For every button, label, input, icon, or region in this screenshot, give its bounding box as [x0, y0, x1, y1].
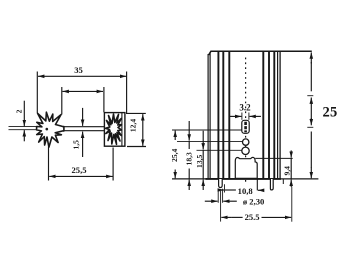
bottom cutout	[235, 157, 257, 178]
pin right (bent tab)	[270, 179, 273, 190]
slot centre dark dash	[244, 122, 247, 132]
cutout top extension line (for 9,4)	[255, 157, 293, 159]
block inner fin star	[106, 114, 122, 144]
fin line	[222, 52, 224, 179]
dimension 10,8 arrow left	[218, 189, 224, 191]
svg-text:12,4: 12,4	[129, 119, 138, 132]
body top edge	[209, 51, 312, 55]
dimension 25 tick upper	[307, 95, 313, 97]
dimension 13,5 line	[202, 150, 204, 179]
body right edge outer	[279, 52, 281, 179]
dimension 25,4 arrow top	[174, 131, 176, 140]
body right edge inner	[277, 52, 279, 179]
dimension 25 tick lower	[307, 126, 313, 128]
dimension 25 line upper	[310, 62, 312, 91]
dimension 12,4 extension bottom	[127, 146, 146, 148]
dimension diameter 2,30 arrow left	[205, 200, 218, 202]
small tick below baseline right of body	[282, 179, 284, 184]
block profile (right element)	[104, 113, 125, 147]
dimension 9,4 arrow top	[290, 150, 292, 157]
fin line	[217, 52, 219, 179]
dimension 35 extension line right	[126, 72, 128, 114]
dimension 1,5 arrow bottom	[82, 132, 84, 157]
dimension 25.5 bottom extension right	[291, 187, 293, 222]
dimension 10,8 arrow right	[258, 189, 264, 191]
dimension 2 arrow bottom	[23, 130, 25, 141]
centre dashed line	[245, 58, 247, 183]
svg-text:13,5: 13,5	[195, 154, 204, 167]
hole lower leader line	[197, 149, 242, 151]
dimension 9,4 line	[290, 158, 292, 179]
inner gap dimension line	[63, 90, 83, 92]
dimension 35 extension line left	[36, 72, 38, 114]
dimension 25.5 bottom extension left	[220, 191, 222, 222]
fin line	[273, 52, 275, 179]
svg-text:25.5: 25.5	[245, 212, 260, 222]
body bottom edge	[206, 178, 282, 180]
dimension 3.2 arrow right	[249, 115, 261, 117]
dimension 3.2 tick right	[248, 113, 250, 120]
dimension 35 line	[38, 75, 82, 77]
dimension diameter 2,30 extension left	[217, 189, 219, 203]
dimension 2 leader top	[9, 126, 37, 128]
body left edge inner	[209, 52, 211, 179]
dimension 25,5 extension right	[112, 148, 114, 181]
svg-text:1,5: 1,5	[72, 140, 81, 150]
dimension 25 line mid	[310, 108, 312, 120]
hole circle upper	[243, 139, 249, 145]
dimension 25,5 extension left	[48, 147, 50, 181]
dimension 25.5 bottom line left	[232, 216, 243, 218]
dimension 12,4 line	[142, 114, 144, 130]
dimension 25,4 arrow bottom	[174, 170, 176, 179]
fin line	[228, 52, 230, 179]
dimension 25 arrow bottom	[310, 168, 312, 179]
dimension 25.5 bottom arrow right	[285, 216, 291, 218]
svg-text:3.2: 3.2	[239, 103, 251, 113]
inner gap extension line right	[103, 87, 105, 112]
web bottom line	[63, 130, 105, 132]
dimension 2 arrow top	[23, 101, 25, 127]
inner gap extension line left	[61, 87, 63, 115]
dimension 25,5 line	[49, 175, 80, 177]
dimension 1,5 arrow top	[82, 108, 84, 126]
slot leader line	[172, 129, 242, 131]
hole upper leader line	[177, 140, 243, 142]
svg-text:9,4: 9,4	[282, 166, 291, 176]
blob centre junction dot	[46, 128, 49, 131]
dimension 18,3 arrow top	[188, 121, 190, 141]
svg-text:35: 35	[74, 65, 83, 75]
dimension 10,8 line left	[225, 189, 236, 191]
block inner wall line	[121, 113, 123, 147]
dimension 25.5 bottom line right	[262, 216, 286, 218]
dimension 25.5 bottom arrow left	[221, 216, 232, 218]
dimension 18,3 arrow bottom	[188, 180, 190, 190]
svg-text:2: 2	[14, 109, 23, 113]
body left edge outer	[207, 54, 209, 179]
fin line	[268, 52, 270, 179]
web top line	[63, 126, 105, 128]
svg-text:25,5: 25,5	[71, 165, 86, 175]
finned blob profile (left element)	[37, 112, 64, 147]
dimension 12,4 extension top	[126, 112, 146, 114]
dimension 25 arrow mid-up	[310, 98, 312, 108]
dimension 10,8 tick right	[256, 179, 258, 190]
hole circle lower	[242, 147, 249, 154]
mounting slot	[242, 120, 249, 133]
dimension 2 leader bottom	[9, 129, 37, 131]
svg-text:25,4: 25,4	[170, 148, 179, 161]
dimension diameter 2,30 line to label	[230, 200, 237, 202]
svg-text:18,3: 18,3	[185, 152, 194, 165]
dimension 10,8 tick left	[224, 184, 226, 192]
fin line	[262, 52, 264, 179]
baseline bottom edge (outside body)	[172, 178, 318, 180]
dimension 3.2 tick left	[241, 113, 243, 120]
dimension 25 line lower	[310, 132, 312, 169]
svg-text:25: 25	[322, 105, 337, 121]
pin left	[219, 179, 223, 188]
svg-text:10,8: 10,8	[238, 186, 254, 196]
dimension diameter 2,30 arrow right	[223, 200, 229, 202]
dimension 3.2 arrow left	[229, 115, 242, 117]
dimension 13,5 arrow bottom	[202, 180, 204, 190]
dimension 9,4 arrow bottom	[290, 180, 292, 187]
dimension 13,5 arrow top	[202, 131, 204, 150]
dimension 25 arrow top	[310, 52, 312, 63]
dimension 18,3 line upper part	[188, 141, 190, 149]
dimension diameter 2,30 extension right	[222, 189, 224, 203]
dimension 25 arrow mid-down	[310, 118, 312, 125]
svg-text:ø 2,30: ø 2,30	[243, 196, 264, 206]
dimension 18,3 line lower part	[188, 169, 190, 179]
